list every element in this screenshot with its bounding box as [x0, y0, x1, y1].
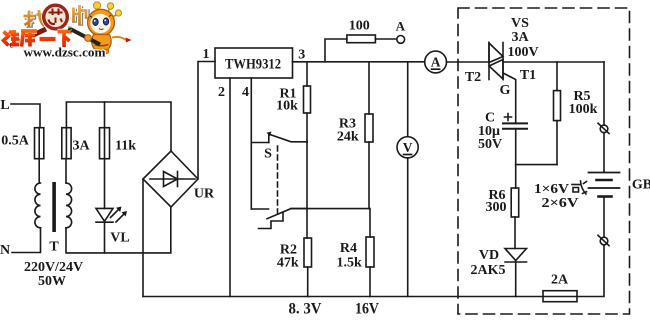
bridge rectifier UR: [143, 151, 215, 207]
svg-text:VS: VS: [511, 16, 529, 31]
resistor R3: [337, 62, 373, 209]
label 220V/24V: [24, 260, 83, 275]
transformer T primary winding: [35, 183, 41, 228]
svg-text:S: S: [264, 146, 272, 161]
pin 1 label: [203, 47, 210, 62]
svg-text:8. 3V: 8. 3V: [289, 300, 322, 317]
wire bridge plus to pin1: [198, 62, 215, 180]
wire lower jack to fuse: [577, 245, 604, 297]
glyph zhao: [24, 9, 47, 28]
svg-text:100V: 100V: [507, 45, 538, 60]
label 2x6V: [542, 196, 579, 211]
node L: [0, 98, 9, 113]
svg-text:16V: 16V: [355, 300, 379, 317]
pin 2 label: [218, 85, 225, 100]
svg-text:11k: 11k: [115, 138, 136, 153]
node N: [0, 243, 10, 258]
svg-text:V: V: [403, 140, 413, 155]
svg-text:2×6V: 2×6V: [542, 196, 579, 211]
wire pin4 down: [250, 78, 252, 209]
label 1x6V or: [534, 182, 569, 197]
resistor R1: [276, 62, 310, 143]
svg-text:0.5A: 0.5A: [1, 134, 30, 149]
svg-text:R4: R4: [340, 241, 357, 256]
label T1: [520, 68, 536, 83]
transformer core: [52, 182, 56, 232]
svg-text:N: N: [0, 243, 10, 258]
svg-text:T2: T2: [465, 70, 481, 85]
svg-text:1: 1: [203, 47, 210, 62]
wire secondary bottom to bridge bottom: [66, 207, 171, 253]
wire LED to bottom: [104, 222, 106, 253]
terminal jack upper: [598, 123, 609, 133]
svg-text:100k: 100k: [569, 102, 598, 117]
wire 11k to LED: [104, 159, 106, 209]
label 50W: [38, 274, 66, 289]
label 16V: [355, 300, 379, 317]
wire to battery: [603, 133, 605, 173]
pin 4 label: [242, 85, 249, 100]
svg-text:T: T: [49, 240, 59, 255]
svg-text:VL: VL: [110, 230, 129, 245]
watermark logo: [4, 2, 132, 60]
resistor 100 branch: [325, 39, 347, 62]
svg-text:300: 300: [486, 200, 507, 215]
svg-text:VD: VD: [479, 248, 499, 263]
switch S top pole: [251, 132, 307, 162]
svg-text:UR: UR: [194, 186, 215, 201]
switch S bottom pole: [251, 209, 307, 229]
capacitor C: [478, 110, 527, 164]
resistor R6: [486, 165, 519, 249]
svg-text:A: A: [431, 55, 441, 70]
svg-text:220V/24V: 220V/24V: [24, 260, 83, 275]
svg-text:1×6V: 1×6V: [534, 182, 569, 197]
svg-text:T1: T1: [520, 68, 536, 83]
triac VS left bar T2: [488, 43, 490, 80]
svg-text:3: 3: [298, 48, 305, 63]
wire C junction to R5: [516, 164, 557, 166]
wire battery branch down: [603, 62, 605, 125]
svg-text:50V: 50V: [478, 137, 502, 152]
resistor 100: [347, 19, 376, 43]
svg-text:TWH9312: TWH9312: [225, 56, 281, 72]
mascot: [68, 2, 132, 54]
magnifier handle: [10, 29, 46, 46]
wire primary to N: [12, 228, 41, 253]
diode VD 2AK5: [471, 248, 527, 297]
svg-text:2: 2: [218, 85, 225, 100]
svg-text:3A: 3A: [72, 138, 90, 153]
wire 11k top: [104, 102, 106, 128]
battery GB: [589, 173, 650, 197]
label T: [49, 240, 59, 255]
terminal jack lower: [598, 235, 609, 245]
svg-text:GB: GB: [632, 177, 650, 192]
svg-text:2A: 2A: [551, 272, 569, 287]
wire secondary top to 3A fuse: [65, 159, 67, 183]
gate lead G: [500, 73, 516, 123]
svg-text:1.5k: 1.5k: [337, 256, 363, 271]
op-amp U1 TWH9312: [215, 48, 293, 78]
fuse 0.5A: [1, 128, 44, 159]
wire L input: [11, 104, 40, 128]
svg-text:3A: 3A: [511, 30, 529, 45]
svg-text:4: 4: [242, 85, 249, 100]
svg-text:10k: 10k: [276, 98, 298, 113]
label VS: [511, 16, 529, 31]
ammeter A: [425, 51, 447, 73]
switch ganged dashed link: [277, 146, 279, 215]
label 3A rating: [511, 30, 529, 45]
terminal A: [396, 18, 406, 43]
svg-text:2AK5: 2AK5: [471, 263, 506, 278]
label T2: [465, 70, 481, 85]
triac lower triangle: [489, 60, 503, 80]
voltmeter V: [397, 62, 418, 297]
wire battery to lower jack: [603, 197, 605, 238]
brand text weikuyixia: [4, 30, 73, 47]
wire 100 to terminal A: [375, 38, 396, 40]
label 100V: [507, 45, 538, 60]
mid rail to R3/R4: [291, 208, 370, 210]
glyph pian: [74, 5, 88, 26]
top rail pin3 to triac: [293, 61, 425, 63]
wire pin2 to bottom rail: [229, 78, 231, 297]
wire ammeter to triac: [446, 61, 489, 63]
wire top bus to bridge: [66, 102, 171, 151]
svg-text:G: G: [500, 83, 511, 98]
transformer T secondary winding: [66, 183, 72, 228]
triac right bar T1: [502, 43, 504, 80]
bottom rail: [143, 296, 543, 298]
fuse 2A: [543, 272, 577, 301]
glyph huo: [572, 181, 587, 194]
svg-text:24k: 24k: [337, 130, 359, 145]
label 8.3V: [289, 300, 322, 317]
svg-text:100: 100: [349, 19, 370, 34]
svg-text:L: L: [0, 98, 9, 113]
LED VL: [96, 207, 130, 246]
resistor 11k: [100, 128, 137, 159]
resistor R5: [554, 62, 598, 165]
wire fuse to transformer primary: [38, 159, 40, 183]
magnifier ring with xin: [42, 4, 68, 30]
resistor R2: [277, 238, 312, 297]
fuse 3A: [62, 128, 91, 159]
svg-text:47k: 47k: [277, 256, 299, 271]
resistor R4: [337, 209, 374, 297]
dashed enclosure box: [458, 8, 630, 314]
pin 3 label: [298, 48, 305, 63]
rail triac to battery branch: [503, 61, 604, 63]
svg-text:50W: 50W: [38, 274, 66, 289]
wire bridge minus to bottom rail: [142, 179, 144, 297]
wire R1 junction down to R2: [306, 142, 308, 238]
svg-text:www.dzsc.com: www.dzsc.com: [24, 45, 106, 60]
svg-text:A: A: [396, 18, 406, 33]
triac upper triangle: [489, 43, 503, 63]
